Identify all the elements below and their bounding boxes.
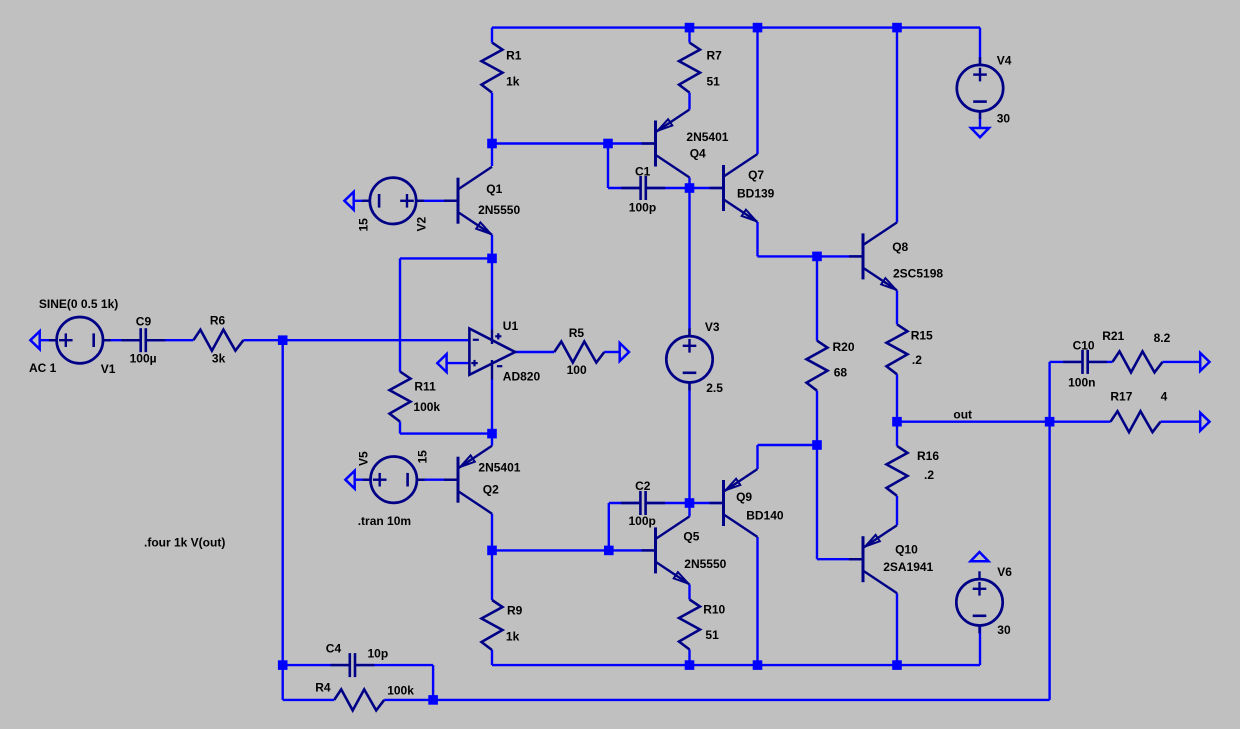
svg-text:51: 51	[705, 628, 719, 642]
svg-text:10p: 10p	[368, 647, 389, 661]
resistor R1	[482, 43, 522, 93]
svg-text:R10: R10	[703, 603, 725, 617]
junction	[487, 546, 497, 556]
svg-text:BD139: BD139	[737, 186, 775, 200]
junction	[487, 139, 497, 149]
wire	[146, 339, 194, 341]
svg-text:Q10: Q10	[895, 542, 918, 556]
voltage source V1	[49, 317, 116, 376]
wire	[896, 290, 898, 324]
transistor Q4	[642, 110, 729, 178]
wire	[1163, 361, 1201, 363]
junction	[487, 254, 497, 264]
wire	[515, 351, 554, 353]
wire	[688, 178, 690, 189]
junction	[604, 546, 614, 556]
wire	[283, 664, 350, 666]
transistor Q7	[710, 154, 775, 222]
wire	[817, 558, 863, 560]
junction	[812, 440, 822, 450]
junction	[603, 139, 613, 149]
wire	[243, 339, 469, 341]
svg-text:3k: 3k	[212, 352, 226, 366]
wire	[816, 256, 818, 340]
wire	[979, 28, 981, 66]
svg-text:15: 15	[416, 450, 430, 464]
wire	[491, 434, 493, 446]
wire	[1088, 361, 1113, 363]
wire	[1048, 422, 1050, 700]
svg-text:R21: R21	[1102, 329, 1124, 343]
svg-text:C4: C4	[326, 642, 342, 656]
svg-text:AC 1: AC 1	[29, 361, 57, 375]
svg-text:Q2: Q2	[483, 482, 499, 496]
wire	[756, 28, 758, 154]
svg-text:V5: V5	[357, 451, 371, 466]
svg-text:.tran 10m: .tran 10m	[358, 514, 411, 528]
svg-text:100k: 100k	[387, 683, 414, 697]
svg-text:R16: R16	[917, 449, 939, 463]
capacitor C10	[1063, 338, 1107, 389]
junction	[892, 660, 902, 670]
wire	[491, 380, 493, 434]
svg-text:2SC5198: 2SC5198	[893, 267, 943, 281]
wire	[447, 362, 470, 364]
junction	[1045, 417, 1055, 427]
transistor Q9	[710, 469, 784, 537]
wire	[896, 28, 898, 223]
svg-text:Q5: Q5	[683, 529, 699, 543]
svg-text:1k: 1k	[506, 630, 520, 644]
output port (R5)	[620, 343, 629, 361]
wire	[355, 664, 433, 666]
svg-text:R6: R6	[210, 313, 226, 327]
wire	[896, 593, 898, 665]
svg-text:AD820: AD820	[503, 369, 541, 383]
capacitor C9	[121, 315, 165, 366]
wire	[688, 650, 690, 666]
junction	[685, 183, 695, 193]
resistor R9	[482, 600, 523, 650]
svg-text:100p: 100p	[629, 514, 656, 528]
junction	[753, 23, 763, 33]
resistor R11	[390, 372, 441, 422]
svg-text:1k: 1k	[506, 74, 520, 88]
wire	[491, 514, 493, 551]
resistor R7	[679, 43, 722, 93]
svg-text:2N5401: 2N5401	[478, 460, 520, 474]
svg-text:C9: C9	[136, 315, 152, 329]
junction	[278, 335, 288, 345]
svg-text:R17: R17	[1110, 390, 1132, 404]
voltage source V4	[957, 53, 1012, 125]
wire	[896, 422, 898, 446]
wire	[1050, 421, 1111, 423]
svg-text:68: 68	[834, 365, 848, 379]
svg-text:U1: U1	[503, 319, 519, 333]
svg-text:V4: V4	[997, 53, 1012, 67]
wire	[282, 665, 284, 700]
svg-text:.four 1k V(out): .four 1k V(out)	[144, 536, 225, 550]
wire	[979, 626, 981, 666]
svg-text:V6: V6	[997, 565, 1012, 579]
svg-text:100n: 100n	[1068, 375, 1095, 389]
voltage source V5	[357, 450, 430, 503]
resistor R17	[1110, 390, 1167, 433]
wire	[491, 235, 493, 259]
ground flag (V6)	[971, 552, 989, 561]
wire	[688, 93, 690, 110]
wire	[283, 699, 335, 701]
voltage source V3	[666, 320, 723, 395]
resistor R16	[887, 446, 940, 496]
svg-text:V2: V2	[415, 216, 429, 231]
svg-text:2SA1941: 2SA1941	[883, 560, 933, 574]
wire	[491, 258, 493, 329]
voltage source V2	[357, 178, 429, 232]
transistor Q2	[444, 446, 521, 514]
wire	[897, 421, 1050, 423]
svg-text:100: 100	[567, 363, 587, 377]
wire	[282, 340, 284, 665]
junction	[278, 660, 288, 670]
svg-text:C2: C2	[635, 479, 651, 493]
svg-text:V1: V1	[101, 362, 116, 376]
resistor R6	[193, 313, 243, 365]
resistor R10	[679, 600, 726, 650]
wire	[607, 144, 609, 189]
junction	[685, 23, 695, 33]
wire	[416, 200, 458, 202]
wire	[646, 502, 690, 504]
wire	[688, 28, 690, 43]
resistor R5	[554, 326, 604, 377]
svg-text:30: 30	[997, 112, 1011, 126]
svg-text:SINE(0 0.5 1k): SINE(0 0.5 1k)	[39, 297, 118, 311]
output port (R17)	[1200, 413, 1209, 431]
wire	[608, 503, 610, 550]
svg-text:R9: R9	[507, 604, 523, 618]
wire	[400, 257, 492, 259]
svg-text:30: 30	[997, 623, 1011, 637]
wire	[491, 93, 493, 144]
wire	[103, 339, 141, 341]
wire	[756, 537, 758, 665]
wire	[979, 112, 981, 129]
svg-text:R11: R11	[414, 380, 436, 394]
junction	[812, 252, 822, 262]
wire	[690, 187, 724, 189]
wire	[688, 383, 690, 504]
capacitor C1	[621, 165, 665, 215]
svg-text:4: 4	[1161, 390, 1168, 404]
wire	[1048, 362, 1050, 422]
svg-text:BD140: BD140	[746, 509, 784, 523]
svg-text:Q8: Q8	[892, 240, 908, 254]
svg-text:100µ: 100µ	[130, 352, 157, 366]
wire	[491, 28, 493, 43]
wire	[432, 665, 434, 700]
wire	[756, 222, 758, 256]
wire	[896, 496, 898, 525]
wire	[417, 479, 458, 481]
wire	[491, 144, 493, 167]
svg-text:R5: R5	[569, 326, 585, 340]
svg-text:2N5401: 2N5401	[686, 130, 728, 144]
wire	[756, 445, 758, 469]
wire	[758, 255, 864, 257]
wire	[688, 503, 690, 516]
svg-text:Q9: Q9	[736, 490, 752, 504]
op-amp U1	[469, 319, 540, 383]
output port (R21)	[1200, 353, 1209, 371]
wire	[491, 550, 493, 600]
svg-text:.2: .2	[924, 468, 934, 482]
ground flag (V4)	[971, 128, 989, 137]
wire	[688, 584, 690, 599]
wire	[399, 422, 401, 434]
resistor R21	[1102, 329, 1170, 372]
junction	[487, 429, 497, 439]
capacitor C2	[621, 479, 665, 528]
svg-text:Q4: Q4	[690, 146, 706, 160]
svg-text:2N5550: 2N5550	[684, 557, 726, 571]
wire	[646, 187, 690, 189]
wire	[399, 258, 401, 371]
wire	[688, 188, 690, 336]
svg-text:15: 15	[357, 218, 371, 232]
junction	[892, 23, 902, 33]
wire	[1161, 421, 1201, 423]
wire	[492, 664, 980, 666]
wire	[492, 26, 980, 28]
resistor R4	[315, 681, 414, 711]
ground flag (V2)	[344, 192, 353, 210]
junction	[753, 660, 763, 670]
capacitor C4	[326, 642, 388, 678]
wire	[690, 502, 724, 504]
svg-text:C10: C10	[1073, 338, 1095, 352]
svg-text:100p: 100p	[629, 201, 656, 215]
ground flag (V1)	[30, 331, 39, 349]
transistor Q5	[642, 516, 727, 584]
resistor R20	[807, 340, 855, 391]
svg-text:8.2: 8.2	[1154, 331, 1171, 345]
wire	[354, 200, 370, 202]
wire	[816, 445, 818, 559]
wire	[40, 339, 57, 341]
ground flag (U1 +in)	[437, 354, 446, 372]
wire	[400, 432, 492, 434]
svg-text:2.5: 2.5	[706, 381, 723, 395]
svg-text:R4: R4	[315, 681, 331, 695]
svg-text:R1: R1	[506, 49, 522, 63]
wire	[758, 444, 818, 446]
junction	[685, 498, 695, 508]
svg-text:Q7: Q7	[748, 168, 764, 182]
wire	[355, 479, 371, 481]
wire	[816, 391, 818, 445]
svg-text:2N5550: 2N5550	[478, 203, 520, 217]
svg-text:Q1: Q1	[486, 182, 502, 196]
junction	[685, 660, 695, 670]
junction	[428, 695, 438, 705]
wire	[384, 699, 1049, 701]
junction	[892, 417, 902, 427]
wire	[491, 650, 493, 665]
wire	[1050, 361, 1083, 363]
svg-text:R20: R20	[833, 340, 855, 354]
wire	[896, 374, 898, 421]
transistor Q10	[849, 525, 934, 593]
svg-text:V3: V3	[705, 320, 720, 334]
wire	[608, 187, 641, 189]
svg-text:100k: 100k	[413, 400, 440, 414]
svg-text:out: out	[953, 408, 972, 422]
wire	[609, 502, 641, 504]
wire	[492, 142, 656, 144]
ground flag (V5)	[345, 471, 354, 489]
svg-text:51: 51	[707, 74, 721, 88]
voltage source V6	[956, 565, 1012, 637]
wire	[492, 549, 656, 551]
transistor Q8	[849, 222, 943, 290]
resistor R15	[887, 324, 934, 374]
wire	[604, 351, 619, 353]
svg-text:.2: .2	[912, 353, 922, 367]
transistor Q1	[444, 167, 520, 235]
svg-text:R15: R15	[911, 328, 933, 342]
svg-text:C1: C1	[635, 165, 651, 179]
svg-text:R7: R7	[707, 49, 723, 63]
